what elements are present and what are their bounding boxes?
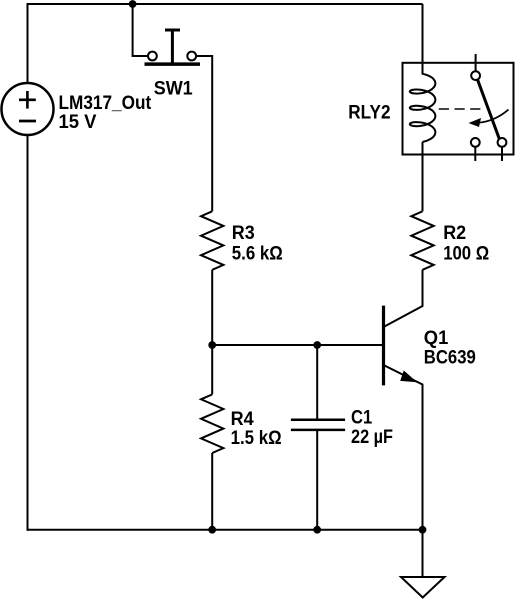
capacitor C1 plate top xyxy=(291,419,345,422)
wire SW1 branch down xyxy=(133,4,148,56)
switch SW1 plunger cap xyxy=(165,29,180,32)
resistor R4 xyxy=(201,394,223,453)
relay RLY2 box xyxy=(403,63,514,155)
wire C1 lower xyxy=(316,430,318,530)
junction dot C1 top xyxy=(313,341,321,349)
transistor Q1 collector xyxy=(384,270,423,327)
relay contact stub bottom right xyxy=(501,147,503,161)
switch SW1 terminal right xyxy=(187,52,196,61)
wire node to R4 xyxy=(211,345,213,394)
relay contact stub top xyxy=(475,54,477,71)
transistor Q1 emitter xyxy=(384,365,423,530)
junction dot bottom R4 xyxy=(208,526,216,534)
junction dot top xyxy=(129,0,137,8)
relay contact stub bottom mid xyxy=(474,147,476,161)
wire C1 upper xyxy=(316,345,318,420)
junction dot bottom C1 xyxy=(313,526,321,534)
relay contact circle top xyxy=(471,71,480,80)
ground xyxy=(401,577,445,598)
svg-text:Q1: Q1 xyxy=(424,328,449,349)
svg-text:15 V: 15 V xyxy=(59,112,97,133)
svg-text:LM317_Out: LM317_Out xyxy=(59,93,152,114)
relay contact circle bottom mid xyxy=(471,138,480,147)
svg-text:R3: R3 xyxy=(232,223,255,244)
svg-text:5.6 kΩ: 5.6 kΩ xyxy=(232,243,283,264)
transistor Q1 emitter arrow xyxy=(400,371,417,383)
wire R4 to bottom xyxy=(211,453,213,530)
transistor Q1 base bar xyxy=(382,306,385,386)
wire left rail upper xyxy=(27,3,29,83)
junction dot bottom right xyxy=(419,526,427,534)
wire left rail lower xyxy=(27,135,29,531)
wire to ground xyxy=(422,530,424,577)
relay coil xyxy=(410,74,436,142)
relay blade xyxy=(478,80,500,139)
svg-text:100 Ω: 100 Ω xyxy=(443,243,489,264)
svg-text:R2: R2 xyxy=(443,223,466,244)
relay arrow curve xyxy=(473,110,509,124)
resistor R3 xyxy=(201,211,223,269)
switch SW1 plunger xyxy=(171,30,174,64)
junction dot node base-left xyxy=(208,341,216,349)
wire bottom rail xyxy=(28,529,423,531)
relay arrow head xyxy=(469,118,482,127)
relay dashed link xyxy=(439,108,481,110)
switch SW1 actuator bar xyxy=(145,62,201,66)
wire R2 to relay coil xyxy=(422,142,424,212)
svg-text:22 µF: 22 µF xyxy=(351,427,393,448)
wire top right down to relay xyxy=(422,4,424,75)
wire R3 to node xyxy=(211,270,213,345)
resistor R2 xyxy=(411,211,433,269)
relay contact circle bottom right xyxy=(498,138,507,147)
wire SW1 to R3 xyxy=(196,56,212,211)
voltage source V1 LM317_Out xyxy=(2,83,54,135)
svg-text:SW1: SW1 xyxy=(154,79,193,100)
svg-text:BC639: BC639 xyxy=(424,347,476,368)
svg-text:RLY2: RLY2 xyxy=(348,102,390,123)
wire top rail xyxy=(28,3,423,5)
switch SW1 terminal left xyxy=(148,52,157,61)
svg-text:C1: C1 xyxy=(351,408,373,429)
svg-text:1.5 kΩ: 1.5 kΩ xyxy=(231,428,282,449)
capacitor C1 plate bottom xyxy=(291,429,345,432)
wire mid rail to base xyxy=(212,344,383,346)
